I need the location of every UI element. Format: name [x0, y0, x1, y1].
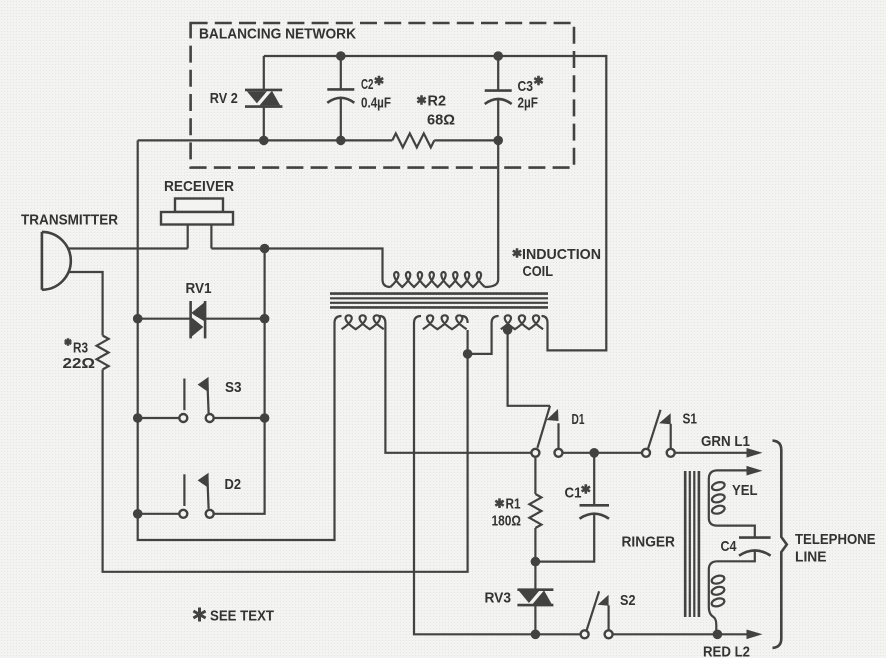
wire winding A right post down to GRN row [380, 316, 532, 453]
wire R1 top lead [534, 457, 536, 494]
resistor R1 zigzag [529, 494, 541, 528]
svg-text:D1: D1 [572, 411, 585, 428]
capacitor C1 [535, 505, 609, 561]
arrow GRN L1 [747, 448, 763, 458]
svg-text:RV1: RV1 [186, 280, 212, 297]
junction C2 bottom [336, 136, 346, 146]
switch S1 [642, 410, 675, 457]
wire RV3 bottom lead [534, 605, 536, 634]
balancing network dashed box [191, 23, 574, 168]
capacitor C2 [327, 56, 354, 140]
induction coil secondary winding B [423, 315, 467, 329]
wire R1 bottom lead [534, 528, 536, 562]
switch D1 [531, 406, 562, 457]
wire winding B right to winding C left link [462, 316, 468, 323]
receiver symbol [161, 199, 233, 249]
label R2 with star [417, 93, 446, 110]
induction coil core bars [330, 294, 548, 308]
svg-text:RV3: RV3 [485, 590, 512, 607]
svg-text:D2: D2 [225, 476, 242, 493]
wire R3 bottom long return to winding B right post [103, 330, 468, 572]
svg-text:LINE: LINE [795, 549, 827, 566]
induction coil secondary winding A [342, 315, 384, 329]
arrow YEL [747, 466, 763, 476]
junction RV3 bottom [531, 630, 541, 640]
wire RV2 bottom lead [263, 107, 265, 141]
wire winding C tap down to D1 arm [542, 316, 548, 323]
label TELEPHONE LINE [795, 531, 876, 566]
svg-text:YEL: YEL [732, 482, 758, 499]
label C3 with star [518, 76, 543, 95]
wire balancing network bottom bus with R2 gap [138, 139, 393, 141]
svg-text:BALANCING NETWORK: BALANCING NETWORK [199, 26, 356, 43]
switch D2 [138, 418, 265, 518]
ringer lower coil [711, 574, 726, 607]
svg-text:R3: R3 [73, 340, 88, 357]
label R3 with star [65, 338, 88, 356]
transmitter symbol [42, 232, 71, 290]
wire top bus from RV2 top to right side down to induction coil third winding [264, 56, 607, 350]
wire transmitter upper lead to receiver left leg [69, 247, 188, 249]
svg-text:RED L2: RED L2 [703, 644, 750, 658]
wire C3 junction down to induction coil primary right end [485, 140, 498, 287]
junction ringer bottom [713, 630, 723, 640]
svg-text:C1: C1 [565, 485, 582, 502]
svg-text:22Ω: 22Ω [63, 355, 96, 372]
wire left rail from balancing network down and bottom loop to winding A left post [138, 140, 342, 540]
junction C1 top node [589, 448, 599, 458]
svg-text:INDUCTION: INDUCTION [522, 246, 601, 263]
svg-text:S1: S1 [683, 411, 698, 428]
svg-text:TELEPHONE: TELEPHONE [795, 531, 876, 548]
wire GRN row S1 to arrow [675, 452, 749, 454]
svg-text:180Ω: 180Ω [492, 513, 522, 530]
svg-text:0.4µF: 0.4µF [361, 95, 391, 112]
svg-text:R2: R2 [428, 93, 447, 110]
wire C1 branch top [593, 453, 595, 506]
junction winding B right [463, 349, 473, 359]
label C1 with star [565, 484, 591, 501]
svg-text:C2: C2 [361, 76, 374, 93]
junction RV1 left [133, 314, 143, 324]
ringer upper coil YEL winding [709, 470, 755, 537]
junction C3 bottom [493, 136, 503, 146]
svg-text:68Ω: 68Ω [427, 112, 455, 129]
label SEE TEXT with star [193, 608, 274, 625]
junction S3 left [133, 413, 143, 423]
junction receiver node [260, 244, 270, 254]
wire C4 to lower coil [709, 551, 755, 634]
switch S2 [581, 591, 613, 638]
wire winding B left post down to RED row [414, 316, 581, 634]
junction winding C tap [503, 325, 513, 335]
wire RV2 top lead [263, 56, 265, 90]
junction S3 right [260, 413, 270, 423]
svg-text:S2: S2 [620, 592, 636, 609]
induction coil secondary winding C [501, 315, 543, 329]
junction C2 top [336, 51, 346, 61]
label INDUCTION COIL with star [513, 246, 601, 280]
svg-text:RINGER: RINGER [622, 534, 676, 551]
wire RV1 row left [138, 318, 191, 320]
svg-text:S3: S3 [225, 379, 242, 396]
resistor R3 zigzag [97, 336, 109, 370]
capacitor C4 [739, 538, 771, 556]
wire RV1 row right [205, 318, 265, 320]
wire GRN row D1 to S1 [563, 452, 643, 454]
wire RED row S2 to arrow [613, 633, 749, 635]
svg-text:RECEIVER: RECEIVER [164, 178, 234, 195]
svg-text:TRANSMITTER: TRANSMITTER [21, 212, 118, 229]
label C2 with star [361, 76, 383, 93]
wire transmitter lower lead to R3 top [70, 272, 103, 336]
junction D2 left [133, 509, 143, 519]
arrow RED L2 [747, 630, 763, 640]
svg-text:C3: C3 [518, 78, 534, 95]
induction coil primary winding [390, 272, 484, 287]
junction R1 RV3 C1 node [531, 557, 541, 567]
svg-text:COIL: COIL [523, 263, 554, 280]
resistor R2 zigzag [392, 133, 434, 147]
wire receiver right leg to induction coil primary left post [211, 249, 390, 288]
wire RV3 top lead [534, 562, 536, 590]
varistor RV3 [517, 589, 553, 607]
svg-text:SEE TEXT: SEE TEXT [210, 608, 274, 625]
svg-text:RV 2: RV 2 [210, 90, 238, 107]
capacitor C3 [485, 56, 512, 140]
junction C3 top [493, 51, 503, 61]
svg-text:GRN L1: GRN L1 [701, 433, 750, 450]
label R1 with star [495, 496, 520, 513]
svg-text:R1: R1 [506, 496, 521, 513]
switch S3 [138, 377, 265, 422]
junction RV1 right [260, 314, 270, 324]
svg-text:2µF: 2µF [518, 95, 539, 112]
telephone line brace [773, 441, 787, 648]
ringer core bars [685, 471, 699, 617]
wire receiver junction vertical down to S3 row [264, 249, 266, 419]
varistor RV1 [189, 301, 207, 338]
varistor RV2 [245, 89, 282, 107]
junction RV2 bottom [259, 136, 269, 146]
svg-text:C4: C4 [721, 538, 738, 555]
